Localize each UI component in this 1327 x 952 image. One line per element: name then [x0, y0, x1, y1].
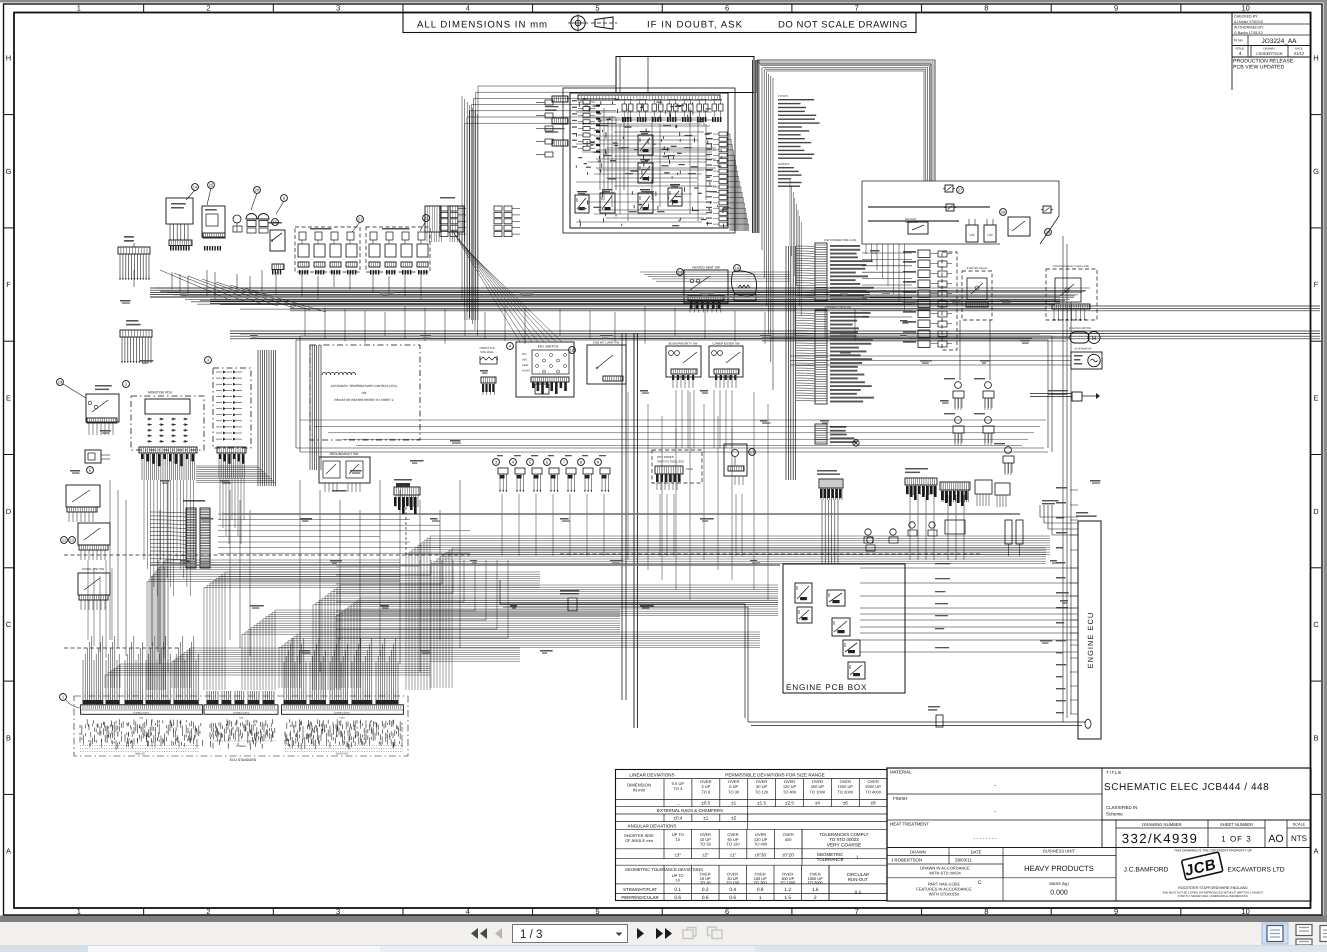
dark blobs under throttle connector [482, 384, 494, 392]
left fan diagonals into key area [452, 230, 562, 342]
svg-text:E: E [1313, 394, 1318, 403]
wires to motor and alternator [762, 333, 1071, 365]
connector above PCB box [817, 470, 843, 564]
svg-text:26: 26 [1001, 210, 1006, 215]
washer pump 1 [246, 214, 257, 219]
grid row ticks and letters left [4, 114, 14, 116]
thick gray bus at y565 [150, 564, 780, 566]
staircase bundle from right upper [406, 536, 1050, 690]
svg-text:KEY SWITCH: KEY SWITCH [538, 345, 559, 349]
svg-text:0.2: 0.2 [702, 887, 709, 893]
svg-text:CAB INT LAMP SW: CAB INT LAMP SW [593, 341, 620, 345]
svg-text:±0°30': ±0°30' [754, 852, 766, 857]
bus vertical drops to mid band [305, 306, 855, 344]
circled ref 6 [281, 195, 288, 202]
svg-text:1 / 3: 1 / 3 [520, 929, 542, 941]
ecu block extra text strokes [88, 719, 399, 749]
connector combs pair upper mid [425, 206, 464, 242]
left trunk via C019 [394, 479, 420, 556]
circled ref 13 [677, 269, 684, 276]
svg-text:C010: C010 [339, 717, 345, 720]
fuse F2 [946, 204, 954, 211]
fusebox to ladders trunk [762, 68, 773, 390]
horn button [233, 215, 242, 232]
svg-text:OPT WIRES: OPT WIRES [657, 455, 674, 459]
svg-text:TO 400: TO 400 [754, 842, 768, 847]
switch drops from E band [676, 390, 732, 448]
fuse box left edge combs [545, 96, 568, 146]
svg-text:AUTOMATIC TEMPERATURE CONTROL: AUTOMATIC TEMPERATURE CONTROL (ATC) [331, 384, 398, 388]
svg-text:25: 25 [209, 183, 214, 188]
connector C11 comb left [118, 236, 150, 280]
wire label specks global [70, 250, 1100, 654]
wire fan into ECU strip1 [83, 636, 198, 691]
svg-text:7: 7 [855, 907, 859, 916]
circled ref 25 [208, 182, 215, 189]
cab int lamp switch [587, 341, 626, 385]
svg-text:4: 4 [466, 3, 470, 12]
PCB relay 6 [848, 662, 865, 679]
sender row drops [502, 494, 742, 556]
engine ECU box [1076, 512, 1101, 739]
ECU pin wire combs strip1 [83, 691, 199, 705]
svg-text:C: C [6, 620, 12, 629]
svg-text:TO 50: TO 50 [700, 842, 712, 847]
svg-text:D: D [1313, 507, 1319, 516]
first angle projection symbol cone [595, 17, 613, 29]
svg-text:PERMISSIBLE DEVIATIONS FOR SIZ: PERMISSIBLE DEVIATIONS FOR SIZE RANGE [725, 773, 824, 778]
viewer top edge strip [0, 0, 1327, 3]
drawn in accordance cell [920, 866, 970, 876]
svg-text:12: 12 [70, 538, 75, 543]
staircase band extra 4 [172, 648, 520, 688]
wires from top components to bus [134, 270, 421, 299]
title cell [1104, 770, 1269, 817]
joystick switch group 2 [366, 227, 430, 272]
LED column dashed box [213, 368, 251, 448]
svg-text:9: 9 [1114, 907, 1118, 916]
circled ref 27 [957, 187, 964, 194]
svg-text:TO 100: TO 100 [726, 880, 740, 885]
bus band mid [230, 331, 1320, 339]
svg-text:-: - [994, 783, 996, 789]
dark blobs under heated seat [690, 302, 720, 309]
svg-text:L: L [857, 855, 860, 861]
fuse box outer enclosure [563, 57, 754, 234]
svg-text:±0.5: ±0.5 [701, 801, 710, 806]
svg-text:TO 300: TO 300 [754, 880, 768, 885]
svg-text:- - - - - - - -: - - - - - - - - [973, 836, 996, 842]
svg-text:6: 6 [725, 907, 729, 916]
in-cab connector strip [169, 240, 192, 246]
svg-text:0.6: 0.6 [729, 895, 736, 901]
wiper connector strip [203, 233, 225, 238]
C019 dark fan blobs [394, 483, 417, 514]
PCB relay 2 [797, 607, 812, 623]
svg-text:DATE: DATE [971, 850, 982, 855]
monitor connector bar [139, 447, 197, 453]
switch column bus entry [862, 253, 912, 317]
revision info block [1232, 13, 1311, 58]
svg-text:2: 2 [814, 895, 817, 901]
svg-text:G: G [1313, 167, 1319, 176]
svg-text:STRAIGHT/FLAT: STRAIGHT/FLAT [623, 887, 657, 892]
svg-text:0.1: 0.1 [674, 887, 681, 893]
joystick switch group 1 [295, 227, 360, 272]
svg-text:STARTER RELAY: STARTER RELAY [967, 267, 988, 270]
svg-text:3: 3 [336, 907, 340, 916]
monitor fan extension downward [144, 480, 194, 596]
engine sensor connector strips [905, 468, 970, 502]
engine cluster extra combs [977, 494, 1006, 507]
svg-text:IN mm: IN mm [633, 788, 646, 793]
svg-text:±1: ±1 [703, 816, 709, 821]
svg-text:ISOLATOR: ISOLATOR [905, 221, 918, 224]
two page layout button (clipped) [1320, 926, 1327, 942]
JCB logo [1181, 852, 1223, 880]
led fan extension downward [220, 478, 244, 544]
last page button [656, 928, 672, 939]
svg-text:SCALE: SCALE [1293, 823, 1306, 827]
continuous scroll layout button [1296, 925, 1312, 946]
ladder B wire fan [796, 313, 815, 401]
svg-text:6: 6 [725, 3, 729, 12]
svg-text:Scheme: Scheme [1106, 812, 1123, 817]
nested corner group left-centre [336, 560, 508, 638]
throttle vol dial [479, 346, 498, 395]
fuse F1 top [945, 185, 953, 192]
svg-text:NTS: NTS [1291, 834, 1307, 843]
svg-text:7: 7 [855, 3, 859, 12]
svg-text:PCB VIEW UPDATED: PCB VIEW UPDATED [1233, 65, 1284, 71]
ECU block bottom dotted rows [80, 741, 403, 752]
starter relay dashed box [962, 267, 992, 320]
heat treatment cell [890, 822, 997, 843]
pump connector strips [247, 228, 268, 233]
dark blobs under led connector [219, 454, 244, 464]
opt wires switch tree connector [655, 455, 693, 490]
svg-text:±3°: ±3° [674, 852, 681, 857]
dark blobs sender row [500, 475, 607, 479]
battery isolator [905, 218, 928, 234]
snapshot icon 2 (disabled) [708, 927, 723, 939]
ignition relay [1000, 209, 1030, 236]
load all connector [272, 264, 284, 270]
fusebox top-right nested corner bundle [757, 62, 933, 181]
engine ECU pin stubs [1056, 487, 1078, 714]
svg-text:400: 400 [785, 837, 792, 842]
svg-text:FUSES: FUSES [778, 94, 788, 98]
svg-text:TO 30: TO 30 [728, 789, 740, 794]
svg-text:OR: OR [362, 391, 367, 395]
sender units right mid [953, 382, 1014, 473]
svg-text:19: 19 [58, 380, 63, 385]
engine PCB box outline [783, 564, 905, 693]
svg-text:±2.5: ±2.5 [785, 801, 794, 806]
ladder trunk verticals [786, 246, 796, 480]
ECU assembly dash-dot border [74, 696, 408, 756]
dashed line lower left [64, 647, 180, 649]
svg-text:OUTPUTS: OUTPUTS [336, 753, 349, 756]
first angle projection symbol circle [568, 15, 588, 32]
ECU connector strip 2 [204, 705, 278, 720]
upper bus band reinforcement [160, 292, 1085, 310]
svg-text:DRAWING NUMBER: DRAWING NUMBER [1142, 822, 1181, 827]
svg-text:VOL DIAL: VOL DIAL [480, 350, 494, 354]
svg-text:WITH STD00250: WITH STD00250 [929, 892, 960, 897]
left wing connectors of fuse box [536, 100, 553, 157]
svg-text:TO 3000: TO 3000 [808, 880, 824, 885]
relay K1 in fuse box [638, 135, 653, 155]
staircase bundle mid [313, 585, 778, 690]
svg-text:±2°: ±2° [702, 852, 709, 857]
dash box connector E [652, 450, 702, 483]
svg-text:IGN: IGN [522, 359, 527, 362]
svg-text:AO: AO [1268, 833, 1283, 845]
aux relay left D-row [78, 523, 110, 560]
heated seat area bundle [640, 272, 790, 281]
svg-text:C/W CONNECTOR A 1/2): C/W CONNECTOR A 1/2) [824, 238, 856, 242]
monitor diode matrix [147, 418, 188, 443]
circled ref 16 [734, 265, 741, 272]
svg-text:GEOMETRIC TOLERANCE DEVIATIONS: GEOMETRIC TOLERANCE DEVIATIONS [625, 867, 703, 872]
svg-text:SHEET NUMBER: SHEET NUMBER [1220, 822, 1253, 827]
ECU connector strip 3 [282, 705, 404, 720]
right edge component box [1030, 390, 1100, 401]
dashed line D band right [560, 553, 980, 555]
fuse F3 right [1043, 206, 1051, 213]
circled ref 20 [254, 187, 261, 194]
svg-text:1: 1 [77, 907, 81, 916]
ECU text block 1 [80, 719, 199, 750]
grid column ticks and numbers top [143, 4, 145, 13]
svg-text:28/03/11: 28/03/11 [955, 858, 972, 863]
svg-text:0.4: 0.4 [729, 887, 736, 893]
mid band extra lines [240, 334, 1040, 338]
sender unit row [493, 455, 610, 492]
dark blobs under monitor connector [141, 454, 194, 466]
line fuse L/N 1 [966, 219, 978, 242]
svg-text:H: H [1313, 54, 1318, 63]
aux relay left D2 [78, 567, 110, 610]
inductor coil row [322, 372, 356, 375]
cab loom connector ladder A [815, 238, 874, 301]
leader lines for refs [186, 188, 426, 232]
starter relay tier4 dashed box [1046, 265, 1097, 321]
dashed line D band [64, 554, 470, 556]
fuse box top pin strip [578, 95, 720, 100]
dark blobs opt connector [656, 474, 681, 482]
svg-text:1: 1 [759, 895, 762, 901]
svg-text:1.6: 1.6 [812, 887, 819, 893]
svg-text:AUTHORISED BY:: AUTHORISED BY: [1234, 26, 1264, 30]
starter motor [1069, 327, 1100, 344]
svg-text:10: 10 [1242, 3, 1250, 12]
svg-text:INPUTS: INPUTS [135, 753, 145, 756]
svg-text:TO 400: TO 400 [783, 789, 797, 794]
svg-text:STRICTLY SECRET AND CONFIDENTI: STRICTLY SECRET AND CONFIDENTIAL INFORMA… [1177, 895, 1248, 898]
svg-text:10: 10 [676, 837, 681, 842]
ladder A wire fan [796, 246, 815, 298]
washer pump 2 [258, 214, 269, 219]
scale cell [1291, 823, 1307, 844]
battery circuit enclosure [862, 181, 1059, 244]
engine cluster wires [910, 495, 964, 560]
svg-text:0.000: 0.000 [1050, 890, 1068, 897]
PCB relay 1 [795, 583, 812, 603]
fuse box inner wires [596, 57, 716, 191]
svg-text:C199: C199 [686, 467, 693, 471]
svg-text:B: B [6, 733, 11, 742]
circled ref 3a [123, 381, 130, 388]
wire routing rectangles mid band [296, 336, 1052, 452]
relay K5 in fuse box [668, 188, 682, 206]
svg-text:10: 10 [1242, 907, 1250, 916]
svg-text:LINEAR DEVIATIONS: LINEAR DEVIATIONS [629, 773, 674, 778]
revision note text [1232, 57, 1294, 90]
bundle into connector 2 [204, 572, 540, 690]
circled ref 22 [423, 215, 430, 222]
svg-text:PERPENDICULAR: PERPENDICULAR [621, 895, 658, 900]
svg-text:5: 5 [595, 3, 599, 12]
wiper module [202, 206, 225, 237]
svg-text:M: M [1092, 336, 1096, 342]
fuel injector staircase [1040, 500, 1078, 535]
circled ref 16b [569, 347, 576, 354]
ladder to mid horizontals left [218, 514, 470, 553]
dark blobs engine connectors [820, 486, 968, 506]
right mid sender labels [944, 378, 1005, 444]
lower boxer switch [709, 342, 743, 389]
svg-text:HEAT: HEAT [522, 364, 529, 367]
engine sensor senders [866, 522, 937, 551]
svg-text:-: - [994, 809, 996, 815]
svg-text:TO 120: TO 120 [755, 789, 769, 794]
svg-text:TO 30: TO 30 [700, 880, 712, 885]
console connector ladder C004 [183, 500, 210, 568]
part has code cell [916, 880, 982, 897]
svg-text:CLASSIFIED IN: CLASSIFIED IN [1106, 805, 1137, 810]
staircase band extra 5 [105, 664, 430, 688]
PCB relay 3 [827, 590, 845, 606]
ladder feeds from upper bus [790, 180, 801, 316]
fan from monitor connectors to right [196, 466, 276, 482]
svg-text:LOWER BOXER SW: LOWER BOXER SW [713, 342, 740, 346]
svg-text:L/N: L/N [970, 233, 976, 237]
svg-text:16: 16 [735, 266, 740, 271]
grid row ticks and letters right [1311, 114, 1322, 116]
diode list text [778, 162, 802, 187]
svg-text:CONNECTOR B 1/2): CONNECTOR B 1/2) [825, 305, 851, 309]
copyright cell [1124, 849, 1285, 899]
heated seat element symbol [731, 271, 756, 301]
svg-text:HEATED SEAT SW: HEATED SEAT SW [692, 266, 720, 270]
svg-text:CONNECTOR B: CONNECTOR B [233, 712, 250, 715]
svg-text:REDUNDANCY SW: REDUNDANCY SW [330, 452, 358, 456]
ECU connector strip 1 [81, 705, 203, 720]
central vertical trunk bundle [622, 333, 637, 728]
svg-text:14: 14 [193, 185, 198, 190]
connector comb F-row left [120, 320, 152, 363]
svg-text:20: 20 [255, 188, 260, 193]
switch column dashed border [942, 252, 957, 350]
svg-text:±1.5: ±1.5 [757, 801, 766, 806]
svg-text:0.6: 0.6 [674, 895, 681, 901]
viewer right gray strip [1324, 2, 1327, 919]
lower left vertical comb drops [88, 560, 164, 658]
circled ref 15 [272, 219, 279, 226]
long vertical wires left region [110, 480, 460, 672]
console ladder left wire fan [150, 512, 186, 564]
svg-text:0.6: 0.6 [702, 895, 709, 901]
fuse box left exit bundle [465, 86, 616, 320]
svg-text:IF IN DOUBT, ASK: IF IN DOUBT, ASK [647, 19, 743, 30]
circled ref 1 [60, 694, 67, 701]
svg-text:±1°: ±1° [730, 852, 737, 857]
mass cell [1049, 881, 1069, 897]
load all switch [268, 222, 285, 251]
svg-text:2: 2 [206, 907, 210, 916]
svg-text:±0°20': ±0°20' [782, 852, 794, 857]
svg-text:C: C [978, 880, 982, 886]
svg-text:JO3224_AA: JO3224_AA [1261, 38, 1297, 45]
ECU text block 2 [210, 720, 275, 744]
svg-text:C: C [1313, 620, 1319, 629]
circled ref 3b [205, 357, 212, 364]
ground loop right terminal [1085, 719, 1091, 728]
staircase band extra 3 [279, 632, 760, 688]
svg-text:4: 4 [466, 907, 470, 916]
svg-text:MATERIAL: MATERIAL [890, 770, 912, 775]
svg-text:1.2: 1.2 [784, 887, 791, 893]
centre long verticals [628, 392, 768, 600]
boom priority switch [666, 342, 701, 389]
svg-text:±2: ±2 [731, 816, 737, 821]
finish cell [893, 796, 996, 815]
thick gray bus at y297 segment [150, 296, 870, 298]
svg-text:STARTER MOTOR: STARTER MOTOR [1069, 327, 1091, 330]
svg-text:ROCESTER STAFFORDSHIRE: ROCESTER STAFFORDSHIRE ENGLAND [1178, 886, 1248, 890]
svg-text:9: 9 [1114, 3, 1118, 12]
horn relay box [86, 385, 119, 435]
material cell [890, 770, 996, 790]
svg-text:TO 3: TO 3 [673, 786, 683, 791]
ECU pin wire combs strip3 [284, 691, 399, 705]
dark blobs under key switch connector [532, 382, 567, 394]
snapshot icon 1 (disabled) [683, 928, 696, 939]
svg-text:TO 1000: TO 1000 [810, 789, 826, 794]
ECU block labels [135, 745, 348, 762]
svg-text:0.8: 0.8 [757, 887, 764, 893]
thick gray bus at y514 [222, 513, 1020, 515]
relay K4 in fuse box [638, 193, 653, 213]
svg-text:H: H [6, 54, 11, 63]
engine sensor boxes [945, 480, 1010, 534]
vertical resistor pair [1005, 520, 1023, 556]
12V socket [85, 450, 110, 473]
fuse box dense label specks [578, 98, 729, 226]
svg-text:D: D [6, 507, 12, 516]
svg-text:01/12: 01/12 [1294, 51, 1305, 56]
svg-text:G.Banks 17/01/12: G.Banks 17/01/12 [1234, 31, 1263, 35]
svg-text:1.5: 1.5 [784, 895, 791, 901]
pin combs under joystick strips [299, 270, 427, 275]
svg-text:F: F [6, 280, 11, 289]
svg-text:ANGULAR DEVIATIONS: ANGULAR DEVIATIONS [628, 823, 677, 828]
cab loom connector ladder B [815, 305, 874, 404]
svg-text:8: 8 [984, 907, 988, 916]
svg-text:TO 1000: TO 1000 [780, 880, 796, 885]
